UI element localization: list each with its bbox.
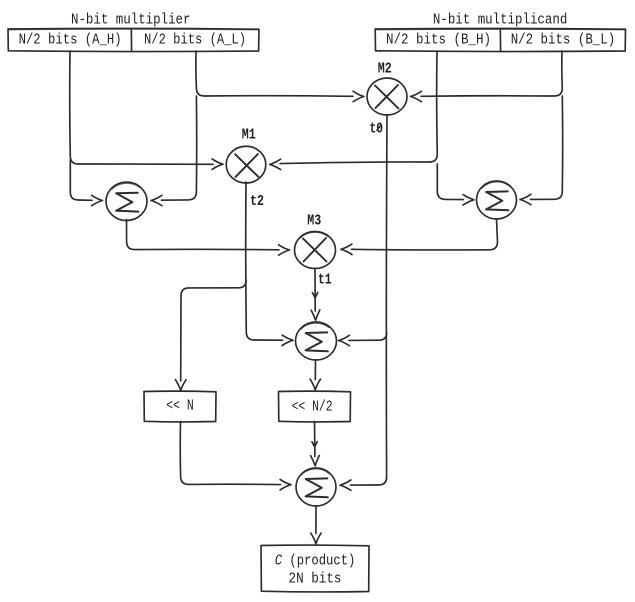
wire left sigma output to M3 left input bbox=[127, 220, 290, 256]
shifter box << N/2 bbox=[279, 391, 351, 422]
wire B_H to M1 right input bbox=[270, 51, 438, 170]
multiplier M2 circle bbox=[367, 62, 407, 115]
svg-text:M2: M2 bbox=[378, 62, 392, 78]
wire t2 (M1 output) down to middle sigma left input bbox=[246, 182, 293, 346]
svg-text:t2: t2 bbox=[250, 194, 264, 210]
wire middle sigma output to << N/2 shifter bbox=[310, 360, 320, 390]
label t0 slashed zero stroke bbox=[377, 125, 381, 131]
wire t0 (M2 output) down to bottom sigma right input bbox=[340, 115, 387, 490]
wire A_H to M1 left input bbox=[70, 51, 223, 169]
wire t2 branch to << N shifter bbox=[175, 280, 246, 391]
multiplier M3 circle bbox=[295, 214, 336, 269]
wire B_H to right sigma bbox=[437, 164, 474, 205]
wire B_L to M2 right input bbox=[411, 51, 563, 102]
wire << N/2 point to bottom sigma top input bbox=[311, 456, 320, 466]
svg-text:M3: M3 bbox=[307, 214, 321, 230]
wire << N/2 output arrow with mid tick bbox=[312, 422, 317, 457]
svg-text:(product): (product) bbox=[289, 554, 355, 570]
wire t0 branch to middle sigma right input bbox=[339, 332, 387, 346]
wire bottom sigma output to C box bbox=[311, 506, 321, 544]
svg-text:N/2 bits (A_L): N/2 bits (A_L) bbox=[144, 33, 246, 49]
wire B_L to right sigma bbox=[520, 96, 563, 205]
adder sigma bottom (final sum) bbox=[296, 468, 336, 506]
wire A_L to M2 left input bbox=[196, 51, 364, 102]
wire << N output to bottom sigma left input bbox=[180, 422, 291, 490]
svg-text:C: C bbox=[275, 554, 283, 570]
wire A_H to left sigma bbox=[70, 160, 102, 206]
register A (multiplier) box: N/2 bits (A_H) | N/2 bits (A_L) bbox=[8, 28, 259, 51]
svg-text:N/2 bits (A_H): N/2 bits (A_H) bbox=[19, 33, 122, 49]
svg-text:<< N/2: << N/2 bbox=[292, 399, 333, 415]
wire right sigma output to M3 right input bbox=[341, 220, 498, 255]
svg-text:N-bit multiplier: N-bit multiplier bbox=[71, 12, 191, 28]
adder sigma right (B_H + B_L) bbox=[477, 181, 517, 219]
svg-text:<< N: << N bbox=[166, 399, 194, 415]
wire A_L to left sigma bbox=[151, 96, 197, 206]
svg-text:t0: t0 bbox=[370, 122, 384, 138]
register B (multiplicand) box: N/2 bits (B_H) | N/2 bits (B_L) bbox=[375, 28, 625, 51]
svg-text:t1: t1 bbox=[318, 273, 332, 289]
svg-text:N/2 bits (B_L): N/2 bits (B_L) bbox=[511, 33, 616, 49]
output box C (product) 2N bits bbox=[261, 545, 369, 592]
wire t1 point to middle sigma top input bbox=[311, 310, 320, 320]
adder sigma middle (t2+t1+t0) bbox=[296, 322, 337, 360]
wire t1: M3 output arrow with mid tick bbox=[312, 269, 317, 312]
svg-text:M1: M1 bbox=[242, 128, 256, 144]
svg-text:N/2 bits (B_H): N/2 bits (B_H) bbox=[386, 33, 491, 49]
svg-text:N-bit multiplicand: N-bit multiplicand bbox=[433, 12, 567, 28]
svg-text:2N bits: 2N bits bbox=[289, 571, 342, 587]
multiplier M1 circle bbox=[226, 128, 266, 183]
shifter box << N bbox=[144, 391, 216, 422]
adder sigma left (A_H + A_L) bbox=[106, 182, 147, 220]
